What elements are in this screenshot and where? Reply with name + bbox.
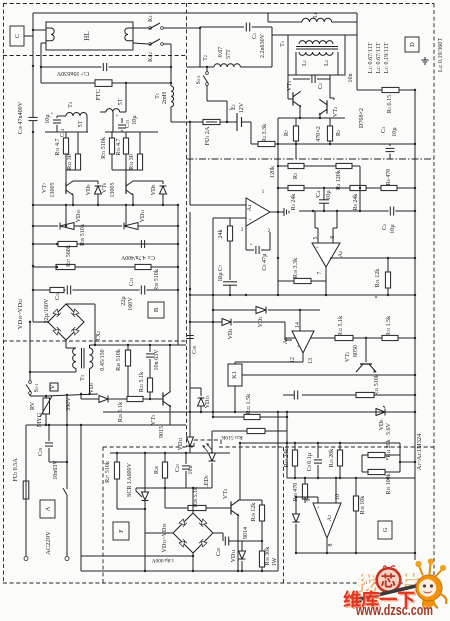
switch S1-2 <box>206 67 208 72</box>
svg-text:R7: R7 <box>284 130 290 136</box>
wire R27 bottom to SCR cathode <box>117 508 145 510</box>
photodiode above F box <box>200 439 202 441</box>
wire center bus x=190 <box>189 122 191 205</box>
svg-text:R29 12k: R29 12k <box>251 502 257 522</box>
wire G top rail y=443 <box>240 442 400 444</box>
wire rail y=226 with diodes <box>33 225 58 227</box>
section F dashed left edge x=103 <box>102 447 104 583</box>
capacitor C14 with + lead <box>56 116 58 118</box>
resistor R2 3.3k <box>251 143 258 145</box>
resistor R1 0.15 <box>356 35 358 90</box>
wire row y=322 <box>190 321 222 323</box>
svg-text:VD6: VD6 <box>379 420 385 431</box>
svg-text:RV: RV <box>30 401 36 410</box>
svg-text:D768×2: D768×2 <box>359 108 365 128</box>
svg-text:G: G <box>382 527 389 532</box>
capacitor C17 <box>102 63 104 71</box>
svg-text:R35 4.7: R35 4.7 <box>116 138 122 155</box>
svg-text:T3: T3 <box>80 375 86 381</box>
section marker box G <box>378 521 392 539</box>
wire row y=188 <box>278 187 415 189</box>
bridge rectifier VD15~VD18 <box>173 513 213 553</box>
svg-text:10µ: 10µ <box>326 190 332 200</box>
svg-text:VD4: VD4 <box>228 329 234 340</box>
svg-text:0.67: 0.67 <box>218 47 224 58</box>
wire T3 right winding down <box>89 368 91 394</box>
wire vertical x=66 cell to rails <box>65 205 67 226</box>
lamp HL filament right <box>125 28 133 41</box>
diode VD12 on x=190 <box>189 412 191 437</box>
op-amp A4 <box>292 331 314 353</box>
wire left cell top rail <box>45 131 88 133</box>
wire rail y=267 <box>33 266 178 268</box>
svg-text:R26: R26 <box>154 466 160 474</box>
capacitor C3 10u <box>389 144 391 146</box>
wire HL upper-left pin <box>33 29 46 31</box>
svg-text:L2: L2 <box>324 60 330 66</box>
wire left main bus x=33 lower <box>32 121 34 322</box>
wire A3 minus input from rail <box>335 478 337 503</box>
wire F left column x=117 <box>116 453 118 462</box>
svg-text:5T: 5T <box>78 120 84 127</box>
svg-text:R31 4.7: R31 4.7 <box>55 138 61 155</box>
resistor R15 510k <box>356 392 374 397</box>
svg-text:160V: 160V <box>128 297 134 311</box>
wire row y=541 <box>241 540 243 542</box>
section divider dashed horizontal y=341 left <box>3 340 187 342</box>
transistor VT1 <box>287 75 289 90</box>
wire A2 minus input stub <box>336 211 338 228</box>
outer frame dashed right edge <box>433 4 435 584</box>
transistor VT7 13005 <box>65 154 67 170</box>
svg-text:VT1: VT1 <box>287 81 293 91</box>
diode VD11 <box>124 223 138 230</box>
section marker box D <box>405 37 419 52</box>
transformer T3 right winding <box>90 348 93 368</box>
wire VT4 collector column <box>239 443 241 500</box>
wire A1 output <box>270 211 278 213</box>
wire vertical x=126 cell to rails <box>125 205 127 226</box>
svg-text:TX2: TX2 <box>96 331 102 341</box>
capacitor C8 47u <box>245 222 247 250</box>
svg-text:5.6V: 5.6V <box>386 422 392 435</box>
svg-text:VT7: VT7 <box>42 183 48 193</box>
section marker box F <box>113 522 129 540</box>
svg-text:VD11: VD11 <box>140 210 146 223</box>
capacitor C7 10u below 24k <box>229 246 231 280</box>
svg-text:R30 30k: R30 30k <box>265 546 271 566</box>
svg-text:SCR 1A600V: SCR 1A600V <box>127 462 133 497</box>
svg-text:R3: R3 <box>293 173 299 179</box>
svg-text:T2: T2 <box>203 55 209 61</box>
V box above RV <box>50 383 58 391</box>
svg-text:R22 1.5k: R22 1.5k <box>246 393 252 414</box>
svg-text:+: + <box>296 344 299 350</box>
svg-text:13005: 13005 <box>50 182 56 197</box>
capacitor on center bus <box>186 335 194 337</box>
svg-text:120k: 120k <box>270 165 276 178</box>
wire bridge left vertex to SCR column <box>145 532 173 534</box>
fuse FU2 0.5A <box>23 481 29 499</box>
wire L6 row step <box>267 13 269 22</box>
wire K1-2 from lamp <box>133 43 148 44</box>
svg-text:A1~A4:1M324: A1~A4:1M324 <box>416 433 423 470</box>
transistor VT3 9015 <box>162 392 164 405</box>
svg-text:VT3: VT3 <box>151 415 157 425</box>
wire SCR gate from rail y=488 <box>135 488 137 491</box>
wire row y=338 <box>285 337 335 339</box>
diode VD4 <box>222 319 231 326</box>
svg-text:R5 24k: R5 24k <box>291 193 297 211</box>
resistor R19 100k <box>368 469 385 474</box>
wire row y=258 right <box>330 257 415 259</box>
svg-text:VT6: VT6 <box>102 183 108 193</box>
svg-text:R6 470: R6 470 <box>386 169 392 186</box>
svg-text:10µ: 10µ <box>390 224 396 234</box>
svg-text:R5: R5 <box>336 130 342 136</box>
svg-text:+: + <box>316 505 319 511</box>
wire C1 to box left leg <box>252 26 272 28</box>
svg-text:S1-2: S1-2 <box>196 76 202 85</box>
svg-text:AC220V: AC220V <box>45 531 52 555</box>
watermark red text 维库一下 <box>345 592 416 610</box>
terminal circle right <box>65 557 69 561</box>
wire x=360 connecting rows <box>359 166 361 188</box>
svg-text:VT2: VT2 <box>333 107 339 117</box>
op-amp A3 <box>313 503 341 538</box>
bridge diode glyphs <box>53 309 61 317</box>
svg-text:+: + <box>51 112 54 117</box>
wire R29 top <box>240 499 262 501</box>
wire coil to right cell rail <box>112 112 114 132</box>
svg-text:R25 5.1k: R25 5.1k <box>139 371 145 392</box>
outer frame dashed top edge <box>3 3 434 5</box>
svg-text:K1-1: K1-1 <box>148 12 154 22</box>
resistor R38b 10k <box>355 478 357 496</box>
switch S1-1 <box>29 381 32 384</box>
svg-text:C13: C13 <box>129 278 135 286</box>
wire bridge top <box>192 488 194 513</box>
wire A2 output to row y=295 <box>325 281 327 295</box>
svg-text:E1: E1 <box>231 104 237 110</box>
svg-text:2.2n630V: 2.2n630V <box>260 33 266 58</box>
resistor R32 30 <box>77 132 79 154</box>
PTC loop bottom wire <box>41 82 95 84</box>
wire battery to R2 drop <box>250 122 252 144</box>
resistor R30b 470 <box>304 478 306 484</box>
svg-text:R25 20k: R25 20k <box>329 448 335 468</box>
wire top rail y=13 <box>33 12 357 14</box>
svg-text:www.dzsc.com: www.dzsc.com <box>355 603 433 619</box>
op-amp A2 <box>312 243 340 267</box>
inductor T2 0.67 57T <box>187 66 215 68</box>
wire bottom rail y=571 <box>81 570 278 572</box>
wire T5 secondary down legs <box>295 52 297 75</box>
svg-text:R1 0.15: R1 0.15 <box>387 95 393 113</box>
svg-text:C20: C20 <box>216 548 222 556</box>
resistor R30 30k 1W <box>261 541 263 551</box>
wire VT2 emitter to rail <box>319 114 321 118</box>
wire node down to T2 rail <box>199 28 201 67</box>
watermark red seal circle with 芯 <box>377 568 401 592</box>
svg-text:S1-1: S1-1 <box>34 384 40 393</box>
svg-text:10µ: 10µ <box>218 272 224 282</box>
svg-text:R2 3.3k: R2 3.3k <box>262 123 268 142</box>
svg-text:K1-2: K1-2 <box>148 52 154 62</box>
svg-text:C3: C3 <box>381 127 387 133</box>
svg-text:L4: 0.19/360T: L4: 0.19/360T <box>438 38 444 72</box>
svg-text:C9 0.1µ: C9 0.1µ <box>307 452 313 471</box>
wire fuse to left terminal <box>25 499 27 556</box>
wire rail y=425 <box>26 424 186 426</box>
diode VD10 <box>60 223 74 230</box>
wire A4 output to K1 <box>302 353 304 362</box>
svg-text:C18: C18 <box>192 346 198 354</box>
wire emitter rail y=118 <box>278 117 345 119</box>
svg-text:+: + <box>383 143 386 148</box>
svg-text:R6 24k: R6 24k <box>353 193 359 211</box>
wire A2 output down <box>325 267 327 281</box>
resistor R20 5.1k <box>127 396 143 401</box>
diode VD2 horizontal <box>256 307 266 314</box>
svg-text:R38 10k: R38 10k <box>360 495 366 515</box>
svg-text:L1: L1 <box>302 60 308 66</box>
svg-text:VD15~VD18: VD15~VD18 <box>162 524 168 553</box>
wire row y=144 top right <box>278 143 415 145</box>
wire row y=310 <box>213 309 256 311</box>
svg-text:R17 24k: R17 24k <box>284 448 290 468</box>
diode VD13 <box>198 398 205 406</box>
transformer T5 top winding <box>299 41 333 44</box>
svg-text:8050: 8050 <box>353 345 359 357</box>
wire rail y=399 <box>81 398 160 400</box>
capacitor C16 inline on bus <box>29 116 38 118</box>
svg-text:VD10: VD10 <box>76 210 82 223</box>
wire S1-1 column x=30 <box>29 322 31 382</box>
wire gate rail y=488 <box>136 487 212 489</box>
capacitor C19 10n63V <box>48 425 50 441</box>
bridge rectifier VD19~VD22 diamond <box>48 304 84 340</box>
svg-text:C2: C2 <box>318 83 324 89</box>
section F/G divider dashed x=283 <box>283 447 285 583</box>
resistor R39 510k inline <box>135 264 151 269</box>
wire K1 bottom <box>234 386 236 412</box>
resistor R25 5.1k <box>149 370 151 378</box>
transformer T3 core <box>81 348 83 368</box>
wire x=360 y=188 to 211 <box>359 188 361 211</box>
svg-text:A2: A2 <box>338 251 344 257</box>
wire G rail y=478 <box>287 477 415 479</box>
capacitor C9 0.1u <box>317 443 319 458</box>
wire rail y=290 <box>33 289 178 291</box>
capacitor C21 10n <box>185 453 187 464</box>
svg-text:A4: A4 <box>283 338 289 344</box>
svg-text:470×2: 470×2 <box>316 126 322 142</box>
diode VD left of A3 <box>295 497 297 514</box>
svg-text:10n: 10n <box>188 465 194 474</box>
svg-text:22µ/160V: 22µ/160V <box>44 298 50 323</box>
svg-text:C21: C21 <box>175 464 181 472</box>
wire optocoupler column x=201 <box>190 387 201 389</box>
inductor T4 5T <box>66 113 87 116</box>
svg-text:L1: 0.67/11T: L1: 0.67/11T <box>368 42 374 73</box>
section F/G dashed top edge y=447 left part <box>103 446 194 448</box>
wire from box C to bus <box>24 35 33 37</box>
lamp HL filament left <box>46 28 54 41</box>
resistor R35 4.7 <box>125 132 127 138</box>
svg-text:*R14 20k: *R14 20k <box>386 439 392 460</box>
wire left F down <box>80 425 82 571</box>
svg-text:5T: 5T <box>118 98 124 105</box>
wire x=41 down to C17 loop <box>40 43 42 83</box>
resistor R3 120k <box>288 163 304 168</box>
wire S1-2 jog to battery column <box>207 100 227 102</box>
capacitor C11 4.7n/400V <box>140 240 142 248</box>
transistor VT4 9014 <box>230 501 232 514</box>
svg-text:12V: 12V <box>239 102 245 113</box>
switch K1-2 <box>149 43 152 46</box>
svg-text:C14: C14 <box>60 129 66 137</box>
resistor R21 12k <box>387 258 389 272</box>
inductor T1 2mH on x=171 <box>171 86 174 107</box>
resistor R22 1.5k <box>244 414 260 419</box>
section divider dashed horizontal y=55 left part <box>3 55 187 57</box>
svg-text:C11 4.7n/400V: C11 4.7n/400V <box>120 254 155 260</box>
diode VD14 <box>241 541 243 551</box>
resistor R36 510k <box>58 241 77 246</box>
resistor R5 24k <box>288 185 304 190</box>
capacitor C20 <box>222 533 224 541</box>
svg-text:+: + <box>248 217 251 223</box>
svg-text:L2: 0.67/11T: L2: 0.67/11T <box>376 42 382 73</box>
transistor VT2 <box>329 75 331 98</box>
wire R7 bottom continues <box>295 144 297 159</box>
wire T1 to fuse row <box>170 107 172 122</box>
wire HL lower-left pin <box>41 42 46 44</box>
wire y=27 from node to C1 <box>200 26 244 28</box>
SCR 1A600V <box>142 492 149 500</box>
transformer T5 box <box>288 35 345 75</box>
relay coil K1 box <box>234 362 236 364</box>
capacitor row y=395 left <box>293 391 295 400</box>
svg-text:LED1: LED1 <box>204 475 210 489</box>
diode VD9 <box>97 181 99 184</box>
wire right bus x=415 <box>414 90 416 560</box>
section marker box B <box>148 302 164 318</box>
watermark grey text 找 <box>358 573 419 592</box>
svg-text:10µ: 10µ <box>132 115 138 125</box>
wire x=278 right side of F <box>277 412 279 571</box>
svg-text:+: + <box>315 245 318 251</box>
capacitor C12 22u/160V inline <box>66 285 73 295</box>
svg-text:C: C <box>14 34 21 38</box>
wire SCR column <box>144 453 146 492</box>
resistor R37 560k <box>56 264 75 269</box>
svg-text:R33 510k: R33 510k <box>101 136 107 159</box>
switch K1-1 <box>149 27 152 30</box>
wire bridge top vertex to x=95 <box>66 303 95 305</box>
resistor R7 <box>295 118 297 126</box>
svg-text:VT5: VT5 <box>345 352 351 362</box>
PTC thermistor inline <box>95 80 112 87</box>
ground symbol top right <box>424 57 426 60</box>
svg-text:R38 510k: R38 510k <box>154 268 160 291</box>
svg-text:FU1 2A: FU1 2A <box>205 126 211 145</box>
svg-text:R24 510K: R24 510K <box>221 434 243 440</box>
wire K1-2 to x=171 <box>163 43 171 45</box>
wire bus to bridge left vertex <box>33 321 48 323</box>
resistor R4 120k <box>336 163 352 168</box>
svg-text:R27 510k: R27 510k <box>105 460 111 483</box>
svg-text:R36 510k: R36 510k <box>80 223 86 246</box>
svg-text:PTC: PTC <box>95 89 102 101</box>
svg-text:8: 8 <box>328 543 334 546</box>
svg-text:7: 7 <box>317 271 323 274</box>
svg-text:R21 12k: R21 12k <box>375 268 381 288</box>
svg-text:R15 510k: R15 510k <box>374 373 380 396</box>
wire R19 col to bus <box>400 461 415 463</box>
wire row y=166 <box>278 165 360 167</box>
wire vertical x=178 <box>177 205 179 345</box>
wire x=67 from rail y=394 down <box>66 395 68 425</box>
wire bridge bottom <box>192 553 194 571</box>
wire row y=211 <box>299 210 415 212</box>
resistor R25b 20k <box>339 443 341 450</box>
svg-text:VD19~VD22: VD19~VD22 <box>17 299 24 329</box>
varistor RV MYG <box>45 396 47 398</box>
outer frame dashed left edge <box>3 3 5 583</box>
wire x=171 down to T1 <box>170 44 172 86</box>
wire VT1 emitter to rail <box>299 106 301 118</box>
svg-text:C1: C1 <box>252 33 258 39</box>
svg-text:24k: 24k <box>218 228 224 238</box>
wire right cell top rail <box>105 131 158 133</box>
section marker box C <box>10 26 24 46</box>
svg-text:57T: 57T <box>226 49 232 59</box>
svg-text:FU2 0.5A: FU2 0.5A <box>13 458 19 482</box>
svg-text:R13 1.5k: R13 1.5k <box>386 315 392 336</box>
svg-text:10n63V: 10n63V <box>53 460 59 480</box>
section F/G dashed top edge y=447 right part <box>219 446 434 448</box>
wire x=67 down to switch <box>66 425 68 487</box>
svg-text:+: + <box>116 114 119 119</box>
op-amp A1 <box>190 204 246 206</box>
capacitor C1 2.2n630V <box>245 23 247 32</box>
svg-text:C16 47n400V: C16 47n400V <box>18 101 24 134</box>
svg-text:C12: C12 <box>55 292 61 300</box>
resistor R29 12k <box>261 500 263 505</box>
wire bridge bottom to T3 <box>65 340 67 348</box>
wire SCR column to rail <box>144 533 146 571</box>
wire LED column upper <box>211 431 213 453</box>
transformer T5 bottom winding L1 L2 <box>299 52 333 55</box>
svg-text:VD5: VD5 <box>89 383 95 394</box>
svg-text:1.8µ/400V: 1.8µ/400V <box>152 557 175 563</box>
outer frame dashed bottom edge <box>3 582 434 584</box>
wire A1 minus input <box>213 217 246 219</box>
resistor R6b 470 <box>381 185 397 190</box>
svg-text:A: A <box>44 506 51 511</box>
resistor R24 510k <box>247 428 265 433</box>
svg-text:R40 510k: R40 510k <box>116 348 122 371</box>
wire A4 pin14 from row 310 <box>299 310 301 331</box>
wire rail y=394 <box>30 395 46 397</box>
svg-text:C7: C7 <box>218 265 224 271</box>
svg-text:K1: K1 <box>231 371 238 379</box>
resistor R6 24k <box>350 185 366 190</box>
svg-text:1W: 1W <box>272 557 278 566</box>
wire bridge right to C20 <box>213 532 223 534</box>
